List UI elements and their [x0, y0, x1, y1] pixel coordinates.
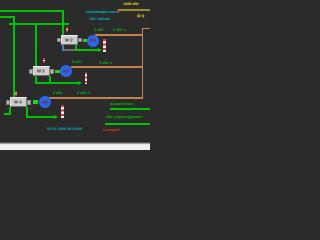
label: W3 flow [99, 61, 112, 65]
pump W3 left terminal [29, 69, 33, 74]
valve V2 (striped) [103, 39, 106, 52]
label: title line 1 (cyan) [86, 10, 119, 14]
pump W3 right terminal [50, 69, 54, 74]
wire: W2 flow arrow line [75, 49, 99, 51]
bottom white bar [0, 142, 150, 151]
wire: W3 flow arrow line [35, 82, 78, 84]
wire: drop to pump W4 [13, 16, 15, 97]
wire: W3 bottom-right elbow [49, 76, 51, 84]
pump W4 run indicator [33, 100, 38, 104]
pump W2 right terminal [78, 38, 82, 43]
breaker tick above W3 [43, 58, 45, 63]
wire: W4 bottom-left elbow left [4, 113, 11, 115]
breaker tick above W4 [15, 91, 17, 96]
pump W2 left terminal [57, 38, 61, 43]
wire: W4 flow arrow line [26, 116, 54, 118]
wire: distribution bus L3 [9, 23, 69, 25]
label: total power (yellow) [123, 2, 139, 6]
motor M2 [87, 35, 99, 47]
wire: top feeder bus L1 [0, 10, 64, 12]
wire: W4 bottom-left elbow down [9, 107, 11, 115]
breaker tick above W2 [66, 27, 68, 32]
pipe: discharge pipe of pump W3 [71, 66, 144, 68]
arrowhead W4 [54, 115, 58, 119]
pump W4 right terminal [27, 100, 31, 105]
motor M4 [39, 96, 51, 108]
wire: drop to pump W2 [62, 10, 64, 35]
legend: produced text [110, 102, 133, 106]
pump W3 box [33, 66, 49, 76]
label: W4 power [53, 91, 63, 95]
legend: alarm text (red) [103, 128, 120, 132]
label: timestamp (cyan) [47, 127, 82, 131]
arrowhead W3 [78, 81, 82, 85]
label: title line 2 (cyan) [89, 17, 110, 21]
wire: W3 bottom-left elbow [35, 76, 37, 84]
pipe: discharge pipe of pump W2 [95, 34, 143, 36]
label: W4 flow [77, 91, 90, 95]
label: line1 red end mark [117, 10, 119, 13]
pipe: discharge pipe of pump W4 [48, 97, 143, 99]
wire: W2 bottom-left stub (blue) [62, 45, 64, 51]
wire: W2 under-box link (dim) [64, 49, 75, 51]
pipe: upper outlet line (olive) [118, 9, 150, 11]
wire: W4 bottom-right elbow down [26, 107, 28, 118]
label: W3 power [72, 60, 82, 64]
pump W4 box [10, 97, 27, 107]
wire: drop to pump W3 [35, 23, 37, 67]
pipe: vertical collector trunk [142, 28, 144, 99]
arrowhead W2 [98, 48, 102, 52]
pump W4 left terminal [6, 100, 10, 105]
label: phase (yellow) [137, 14, 144, 18]
label: W2 flow [113, 28, 126, 32]
valve V4 (striped) [61, 105, 64, 118]
pipe: collector outlet to right edge [142, 28, 150, 30]
wire: second feeder line L2 [0, 16, 15, 18]
wire: W2 bottom-right elbow [75, 45, 77, 51]
pump W2 run indicator [83, 39, 88, 43]
legend: green bar 1 [110, 108, 150, 111]
pump W2 box [61, 35, 77, 45]
legend: green bar 2 [105, 123, 150, 126]
legend: consumed text [106, 115, 142, 119]
valve V3 (striped) [85, 72, 88, 85]
motor M3 [60, 65, 72, 77]
pump W3 run indicator [55, 70, 60, 74]
label: W2 power [94, 28, 104, 32]
